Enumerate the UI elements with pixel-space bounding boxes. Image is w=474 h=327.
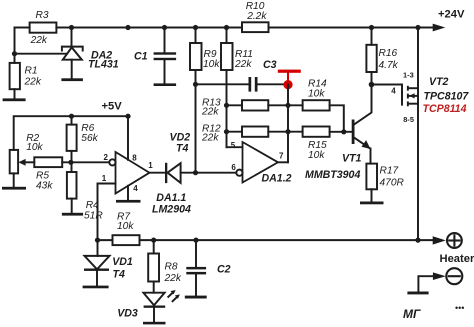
ground VD1 (83, 286, 109, 289)
wiper arrow R2 (18, 159, 34, 166)
svg-text:VD1: VD1 (112, 256, 133, 268)
svg-text:2: 2 (104, 153, 109, 162)
wire VT1 emitter to R17 (370, 149, 372, 164)
svg-text:10k: 10k (117, 221, 134, 232)
wire DA1.2 output riser (287, 85, 289, 163)
ground heater minus (407, 292, 428, 295)
node test point marker (red) (278, 70, 301, 90)
wire DA1.1 output (150, 172, 166, 174)
svg-text:10k: 10k (308, 89, 325, 100)
node R7 left junction (95, 238, 100, 243)
resistor R8 (148, 240, 159, 281)
svg-text:1: 1 (148, 161, 153, 170)
node R12 right junction (285, 129, 290, 134)
svg-text:470R: 470R (380, 178, 405, 189)
node top rail junction dots (69, 25, 421, 30)
power +24V arrow (433, 24, 446, 32)
svg-text:R17: R17 (380, 166, 399, 177)
svg-text:22k: 22k (201, 107, 219, 118)
node R8 top junction (151, 238, 156, 243)
wire DA1.2 output to riser (278, 161, 288, 163)
wire +24V top rail left segment (15, 28, 30, 63)
svg-text:22k: 22k (164, 273, 182, 284)
diode VD1 (84, 240, 110, 286)
svg-text:2.2k: 2.2k (246, 11, 267, 22)
resistor R11 (221, 28, 233, 148)
transistor VT1 emitter (354, 138, 369, 148)
svg-text:R16: R16 (379, 48, 398, 59)
node VD2 output junction (193, 170, 198, 175)
resistor R7 (98, 235, 140, 245)
svg-text:6: 6 (231, 163, 236, 172)
ground VD3 (143, 322, 166, 325)
resistor R1 (10, 63, 20, 99)
resistor R5 (34, 157, 109, 167)
svg-text:•••: ••• (455, 303, 464, 313)
svg-text:МГ: МГ (403, 307, 421, 321)
MOSFET VT2 (407, 86, 418, 107)
capacitor C2 (186, 240, 206, 296)
wire node to DA1.2 pin6 (196, 172, 237, 174)
svg-text:DA1.1: DA1.1 (156, 192, 186, 204)
capacitor C1 (154, 28, 177, 84)
svg-text:5: 5 (231, 141, 236, 150)
svg-text:DA1.2: DA1.2 (262, 172, 292, 184)
resistor R17 (366, 164, 377, 202)
ground R17 (360, 202, 384, 205)
svg-text:T4: T4 (113, 269, 125, 281)
svg-text:43k: 43k (36, 181, 53, 192)
svg-text:22k: 22k (24, 77, 42, 88)
svg-text:4: 4 (133, 184, 138, 193)
ground R2 (2, 187, 26, 190)
svg-text:MMBT3904: MMBT3904 (305, 169, 360, 181)
svg-text:10k: 10k (203, 59, 220, 70)
svg-text:56k: 56k (81, 133, 98, 144)
heater minus output (418, 268, 462, 291)
node R14/R15 junction (341, 129, 346, 134)
wire heater line (140, 239, 419, 241)
ground R1 (3, 98, 26, 101)
wire R9 bottom to C3 (196, 83, 249, 85)
svg-text:22k: 22k (234, 59, 252, 70)
svg-text:TPC8107: TPC8107 (424, 90, 470, 102)
node +5V supply junction (125, 114, 130, 119)
diode VD2 (165, 163, 196, 183)
ground R4 (62, 213, 83, 216)
node R12 left junction (224, 129, 229, 134)
svg-text:R4: R4 (86, 200, 99, 211)
ground DA2 (61, 78, 83, 81)
wire R1 to DA2 reference (15, 53, 68, 55)
capacitor C3 (249, 77, 289, 92)
ground C1 (154, 83, 177, 86)
svg-text:8-5: 8-5 (403, 115, 414, 124)
transistor VT1 collector (354, 85, 372, 125)
resistor R10 (242, 22, 269, 32)
svg-text:T4: T4 (176, 143, 188, 155)
svg-text:22k: 22k (201, 133, 219, 144)
wire top rail middle (56, 27, 242, 29)
resistor R16 (366, 28, 376, 85)
pin 2 input circle DA1.1 (109, 159, 115, 165)
op-amp DA1.1 (116, 152, 150, 194)
svg-text:1: 1 (102, 174, 107, 183)
potentiometer R2 (10, 150, 18, 187)
svg-text:VD3: VD3 (117, 308, 138, 320)
shunt regulator DA2 TL431 (62, 28, 83, 79)
svg-text:51R: 51R (84, 211, 103, 222)
svg-text:LM2904: LM2904 (152, 204, 191, 216)
node R13 left junction (224, 103, 229, 108)
svg-text:22k: 22k (30, 35, 48, 46)
svg-text:VT1: VT1 (342, 153, 362, 165)
svg-text:R8: R8 (165, 262, 178, 273)
wire gate VT2 (372, 85, 403, 105)
transistor VT1 base bar (352, 120, 355, 145)
svg-text:TCP8114: TCP8114 (423, 103, 467, 115)
node +5V R6 junction (69, 114, 74, 119)
resistor R9 (190, 28, 202, 85)
LED VD3 (143, 282, 180, 322)
svg-text:TL431: TL431 (88, 59, 119, 71)
svg-text:4: 4 (391, 87, 396, 96)
svg-text:C3: C3 (263, 59, 277, 71)
op-amp DA1.2 (243, 142, 279, 183)
resistor R12 (227, 127, 289, 137)
pin 6 input circle DA1.2 (236, 170, 242, 176)
svg-text:Heater: Heater (440, 253, 474, 265)
heater plus output (418, 233, 462, 248)
ground C2 (185, 296, 207, 299)
resistor R4 (67, 162, 77, 213)
svg-text:+24V: +24V (438, 9, 465, 21)
ground DA1.1 pin4 (116, 200, 141, 203)
node R9 bottom junction (193, 82, 198, 87)
svg-text:10k: 10k (308, 150, 325, 161)
wire +5V rail (14, 116, 128, 150)
resistor R3 (30, 23, 57, 33)
svg-text:R1: R1 (25, 66, 38, 77)
svg-text:VT2: VT2 (429, 76, 449, 88)
resistor R13 (227, 100, 289, 110)
node C2 top junction (193, 238, 198, 243)
svg-text:8: 8 (132, 153, 137, 162)
wire top rail right (269, 27, 435, 29)
svg-text:C1: C1 (134, 51, 148, 63)
resistor R15 (288, 127, 352, 137)
svg-text:C2: C2 (217, 264, 231, 276)
resistor R6 (67, 116, 77, 162)
svg-text:1-3: 1-3 (403, 71, 414, 80)
pin 4 ground line DA1.1 (127, 186, 129, 200)
node R13 right junction (285, 103, 290, 108)
wire pin 5 input DA1.2 (227, 146, 243, 148)
pin 8 supply line DA1.1 (127, 116, 129, 160)
wire +24V rail to heater junction through VT2 (417, 28, 419, 241)
svg-text:+5V: +5V (102, 101, 123, 113)
wire pin 1 input DA1.1 (98, 184, 116, 241)
node R16/gate junction (369, 82, 375, 88)
resistor R14 (288, 100, 344, 132)
wire R9 node down to VD2 node (195, 84, 197, 172)
svg-text:4.7k: 4.7k (379, 60, 399, 71)
svg-text:7: 7 (279, 151, 284, 160)
svg-text:R3: R3 (36, 10, 49, 21)
node R5/R6/R4 junction (68, 160, 73, 165)
node heater junction (415, 238, 420, 243)
svg-text:10k: 10k (26, 142, 43, 153)
node R1/DA2 junction (12, 51, 17, 56)
